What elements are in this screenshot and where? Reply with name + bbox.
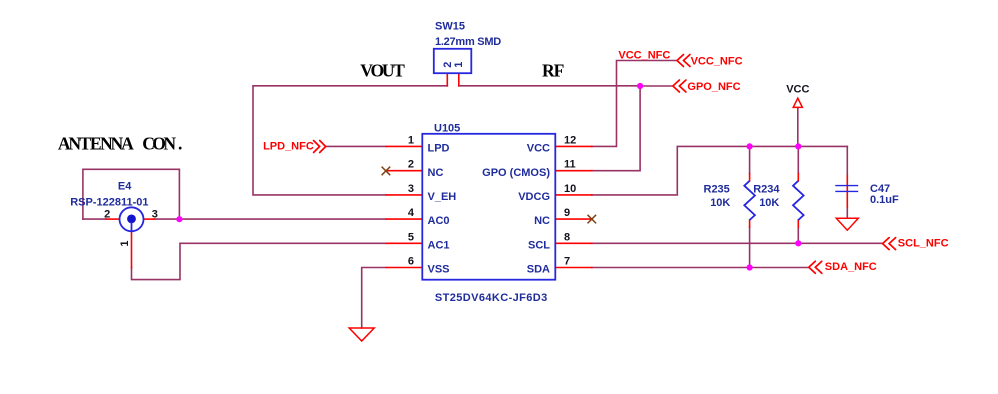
- svg-text:AC0: AC0: [428, 215, 450, 227]
- svg-text:VDCG: VDCG: [518, 191, 550, 203]
- svg-text:NC: NC: [428, 167, 444, 179]
- svg-text:1: 1: [408, 134, 414, 146]
- svg-text:6: 6: [408, 256, 414, 268]
- svg-text:1: 1: [119, 241, 131, 247]
- svg-text:NC: NC: [534, 215, 550, 227]
- svg-text:8: 8: [564, 231, 570, 243]
- svg-text:VCC_NFC: VCC_NFC: [618, 50, 670, 62]
- svg-text:1: 1: [453, 62, 465, 68]
- svg-text:11: 11: [564, 159, 576, 171]
- svg-text:2: 2: [104, 209, 110, 221]
- svg-text:7: 7: [564, 256, 570, 268]
- svg-text:10K: 10K: [710, 197, 730, 209]
- svg-text:RF: RF: [542, 61, 564, 81]
- svg-text:SW15: SW15: [435, 21, 465, 33]
- svg-text:12: 12: [564, 134, 576, 146]
- svg-text:SCL: SCL: [528, 239, 550, 251]
- svg-text:ST25DV64KC-JF6D3: ST25DV64KC-JF6D3: [435, 292, 548, 304]
- svg-text:2: 2: [408, 159, 414, 171]
- svg-text:10K: 10K: [759, 197, 779, 209]
- svg-text:U105: U105: [434, 122, 460, 134]
- svg-text:R235: R235: [704, 183, 730, 195]
- svg-text:LPD_NFC: LPD_NFC: [263, 141, 314, 153]
- svg-text:ANTENNA CON.: ANTENNA CON.: [58, 134, 183, 154]
- svg-text:VOUT: VOUT: [360, 61, 405, 81]
- svg-text:E4: E4: [118, 180, 132, 192]
- svg-text:VCC: VCC: [786, 83, 809, 95]
- svg-text:V_EH: V_EH: [428, 191, 457, 203]
- svg-text:3: 3: [408, 183, 414, 195]
- svg-text:0.1uF: 0.1uF: [870, 194, 899, 206]
- svg-text:9: 9: [564, 207, 570, 219]
- svg-text:AC1: AC1: [428, 239, 450, 251]
- svg-text:SDA: SDA: [527, 264, 550, 276]
- svg-text:5: 5: [408, 231, 414, 243]
- svg-text:SCL_NFC: SCL_NFC: [898, 238, 949, 250]
- svg-text:R234: R234: [753, 183, 780, 195]
- svg-text:10: 10: [564, 183, 576, 195]
- svg-text:4: 4: [408, 207, 415, 219]
- svg-text:VCC: VCC: [527, 143, 550, 155]
- svg-text:VCC_NFC: VCC_NFC: [691, 55, 743, 67]
- svg-text:3: 3: [152, 209, 158, 221]
- svg-text:SDA_NFC: SDA_NFC: [825, 261, 877, 273]
- svg-text:GPO_NFC: GPO_NFC: [687, 81, 740, 93]
- svg-text:VSS: VSS: [428, 264, 450, 276]
- svg-text:LPD: LPD: [428, 143, 450, 155]
- svg-text:GPO (CMOS): GPO (CMOS): [482, 167, 550, 179]
- svg-text:RSP-122811-01: RSP-122811-01: [70, 197, 148, 209]
- svg-text:1.27mm SMD: 1.27mm SMD: [435, 36, 501, 48]
